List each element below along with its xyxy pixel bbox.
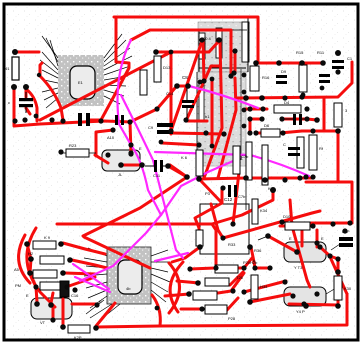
- junction pad (31,259): [28, 256, 34, 262]
- resistor R26: [205, 275, 244, 286]
- svg-text:C: C: [283, 142, 286, 147]
- junction pad (53,320): [50, 317, 55, 322]
- junction pad (156,52): [153, 49, 159, 55]
- junction pad (200,82): [198, 80, 203, 85]
- svg-text:E: E: [321, 236, 324, 241]
- resistor R17: [28, 251, 64, 264]
- transistor VT10 outline: [102, 150, 140, 171]
- junction pad (61,244): [58, 241, 64, 247]
- svg-text:T26: T26: [236, 275, 244, 280]
- wire D10 row: [280, 225, 285, 228]
- junction pad (188,86): [185, 83, 191, 89]
- junction pad (15,121): [12, 118, 17, 123]
- svg-text:4b: 4b: [126, 286, 131, 291]
- junction pad (200,247): [197, 244, 203, 250]
- resistor R23: [61, 143, 96, 157]
- wire box to VT4: [251, 247, 255, 268]
- junction pad (297,252): [294, 249, 300, 255]
- junction pad (36,287): [33, 284, 38, 289]
- junction pad (235,51): [232, 48, 237, 53]
- junction pad (279,63): [276, 60, 282, 66]
- resistor R4: [274, 100, 301, 113]
- junction pad (268,236): [265, 233, 271, 239]
- junction pad (283,133): [280, 130, 285, 135]
- capacitor C10: [284, 114, 307, 125]
- resistor R30: [334, 276, 352, 300]
- svg-text:D9: D9: [281, 69, 287, 74]
- svg-text:P3: P3: [205, 191, 211, 196]
- junction pad (131,154): [128, 151, 133, 156]
- junction pad (307,119): [304, 116, 309, 121]
- resistor C7b: [233, 146, 249, 174]
- junction pad (96,328): [93, 325, 99, 331]
- junction pad (27,244): [24, 241, 30, 247]
- wire bottom bus: [96, 294, 347, 327]
- junction pad (219,40): [216, 37, 222, 43]
- svg-text:R16: R16: [262, 75, 270, 80]
- junction pad (61,152): [58, 149, 63, 154]
- junction pad (330,256): [327, 253, 332, 258]
- wire VT1 verticals: [62, 299, 65, 327]
- svg-text:R36: R36: [254, 248, 262, 253]
- junction pad (168,166): [165, 163, 171, 169]
- junction pad (255,268): [252, 265, 257, 270]
- svg-text:D13: D13: [163, 65, 171, 70]
- junction pad (244,268): [241, 265, 246, 270]
- wire magenta E: [75, 277, 110, 292]
- label E marks: [26, 135, 324, 325]
- junction pad (304,304): [301, 301, 306, 306]
- wire H178: [199, 178, 312, 179]
- junction pad (216,268): [213, 265, 218, 270]
- junction pad (302,63): [299, 60, 305, 66]
- wire V235: [234, 51, 237, 73]
- junction pad (322,88): [320, 86, 325, 91]
- junction pad (256,133): [253, 130, 258, 135]
- junction pad (37,304): [34, 301, 40, 307]
- junction pad (338,131): [335, 128, 341, 134]
- junction pad (130,122): [127, 119, 132, 124]
- wire H63: [256, 62, 324, 65]
- junction pad (250,133): [247, 130, 252, 135]
- resistor R14: [246, 181, 268, 224]
- junction pad (204,81): [201, 78, 206, 83]
- svg-text:C7b: C7b: [238, 194, 246, 199]
- junction pad (307,109): [304, 106, 309, 111]
- junction pad (250,119): [247, 116, 252, 121]
- junction pad (338,306): [335, 303, 341, 309]
- svg-text:A10: A10: [107, 135, 115, 140]
- wire right loop: [302, 131, 338, 182]
- junction pad (52,120): [49, 117, 54, 122]
- wire magenta strand 2: [121, 95, 183, 258]
- wire to R6: [170, 165, 187, 177]
- capacitor C9: [148, 123, 173, 134]
- pin fan lines IC U3 right: [151, 250, 170, 302]
- wire left column join: [27, 244, 37, 302]
- wire magenta B: [189, 86, 258, 108]
- wire R30 bottom: [337, 301, 340, 306]
- junction pad (198,283): [195, 280, 201, 286]
- svg-text:b1: b1: [205, 114, 210, 119]
- pin fan lines IC U1 right: [104, 34, 132, 104]
- svg-text:C12: C12: [224, 197, 233, 202]
- junction pad (246,178): [243, 175, 249, 181]
- junction pad (282,222): [279, 219, 284, 224]
- pin fan lines IC U3 bottom: [86, 300, 120, 320]
- wire magenta F: [73, 264, 109, 289]
- junction pad (313,177): [310, 174, 315, 179]
- junction pad (270,268): [267, 265, 272, 270]
- junction pad (131,153): [128, 150, 133, 155]
- resistor R28: [205, 305, 236, 321]
- junction pad (338,53): [335, 50, 341, 56]
- junction pad (303,95): [301, 93, 306, 98]
- wire D2 diagonal: [84, 237, 150, 268]
- resistor R27: [68, 325, 90, 340]
- svg-text:R33: R33: [228, 242, 236, 247]
- resistor R16: [250, 66, 270, 91]
- junction pad (317,120): [314, 117, 320, 123]
- junction pad (282,119): [279, 116, 284, 121]
- svg-text:E: E: [99, 299, 102, 304]
- junction pad (244,75): [242, 73, 247, 78]
- wire magenta branch upper-right: [161, 158, 240, 215]
- junction pad (36,116): [34, 114, 39, 119]
- junction pad (187,177): [184, 174, 190, 180]
- wire H133: [171, 133, 224, 134]
- svg-text:D6: D6: [264, 123, 270, 128]
- wire VT10 out: [121, 164, 142, 167]
- junction pad (293,296): [290, 293, 295, 298]
- capacitor C2: [78, 113, 90, 126]
- svg-text:K34: K34: [260, 208, 268, 213]
- wire H109: [245, 108, 267, 111]
- svg-text:H2: H2: [28, 251, 34, 256]
- svg-text:D4: D4: [284, 100, 290, 105]
- svg-text:D10: D10: [283, 214, 291, 219]
- junction pad (63,273): [60, 270, 66, 276]
- svg-text:E1: E1: [78, 80, 84, 85]
- wire magenta main: [80, 40, 161, 281]
- capacitor C4: [332, 56, 353, 69]
- wire V204: [203, 40, 204, 81]
- junction pad (14,87): [11, 84, 17, 90]
- junction pad (338,72): [335, 69, 340, 74]
- junction pad (186,120): [183, 117, 188, 122]
- transistor VT1 outline: [31, 298, 72, 319]
- junction pad (157,109): [154, 106, 159, 111]
- junction pad (300,178): [297, 175, 302, 180]
- junction pad (231,76): [228, 73, 233, 78]
- junction pad (15,52): [12, 49, 18, 55]
- junction pad (338,259): [335, 256, 340, 261]
- svg-text:R23: R23: [69, 143, 77, 148]
- wire R2 tail: [172, 228, 200, 262]
- junction pad (202,40): [199, 37, 204, 42]
- wire VT3 connects: [268, 236, 297, 252]
- wire H306: [289, 304, 338, 305]
- resistor R6: [181, 150, 203, 176]
- junction pad (199,145): [196, 142, 201, 147]
- svg-text:C8: C8: [182, 75, 188, 80]
- wire top-left vertical: [101, 18, 129, 120]
- junction pad (263,109): [260, 106, 265, 111]
- wire C2 row: [26, 89, 37, 121]
- resistor R20: [215, 260, 251, 273]
- svg-text:R11: R11: [317, 50, 325, 55]
- resistor R25: [193, 291, 217, 300]
- junction pad (313,131): [310, 128, 315, 133]
- svg-text:E: E: [289, 236, 292, 241]
- capacitor C5: [283, 142, 300, 156]
- capacitor C1: [8, 92, 33, 113]
- junction pad (113,130): [110, 127, 115, 132]
- capacitor C13: [228, 185, 246, 199]
- svg-text:c: c: [8, 100, 10, 105]
- wire left rows to IC U3: [63, 243, 105, 254]
- svg-text:C16: C16: [71, 293, 79, 298]
- resistor R21: [14, 267, 57, 278]
- junction pad (63,121): [60, 118, 65, 123]
- junction pad (75,290): [72, 287, 77, 292]
- wire V290: [290, 200, 310, 287]
- junction pad (233,224): [230, 221, 235, 226]
- wire arcs at IC U3 right: [170, 262, 183, 312]
- resistor R1: [5, 57, 19, 80]
- junction pad (262,98): [259, 95, 265, 101]
- wire big diagonal: [40, 52, 171, 120]
- resistor R15: [296, 50, 307, 92]
- IC U5 block (light gray): [198, 18, 249, 72]
- junction pad (273,190): [270, 187, 276, 193]
- junction pad (121,165): [118, 162, 124, 168]
- junction pad (350,223): [347, 220, 352, 225]
- junction pad (306,177): [303, 174, 308, 179]
- svg-text:PM: PM: [15, 283, 21, 288]
- junction pad (39,75): [37, 73, 41, 77]
- wire rows right of IC U3: [190, 268, 215, 269]
- pin fan lines IC U3 left: [84, 248, 107, 308]
- resistor R8: [240, 142, 252, 180]
- junction pad (250,247): [247, 244, 253, 250]
- junction pad (306,306): [303, 303, 309, 309]
- junction pad (199,179): [196, 176, 202, 182]
- wire to C13: [201, 181, 222, 203]
- svg-text:C11: C11: [153, 173, 161, 178]
- wire H98: [236, 62, 352, 98]
- junction pad (161,142): [159, 140, 164, 145]
- junction pad (26,87): [23, 84, 29, 90]
- transistor VT4 outline: [284, 287, 326, 306]
- junction pad (246,98): [243, 95, 249, 101]
- junction pad (313,226): [310, 223, 315, 228]
- IC U3 body (gray): [107, 247, 151, 304]
- svg-text:H2b: H2b: [250, 260, 258, 265]
- junction pad (70,260): [67, 257, 73, 263]
- IC U1 body (gray): [58, 55, 104, 106]
- junction pad (206,133): [203, 130, 208, 135]
- resistor D13: [154, 56, 171, 82]
- junction pad (97,305): [94, 302, 99, 307]
- junction pad (256,63): [253, 60, 259, 66]
- wire C11 junction: [168, 166, 187, 177]
- resistor D10: [283, 214, 310, 230]
- capacitor C6: [276, 69, 287, 84]
- svg-text:C1: C1: [347, 56, 353, 61]
- svg-text:C9: C9: [148, 125, 154, 130]
- junction pad (244,126): [242, 124, 247, 129]
- junction pad (142,165): [139, 162, 145, 168]
- junction pad (250,302): [247, 299, 253, 305]
- wire vertical V171: [170, 52, 173, 134]
- capacitor C16: [60, 281, 79, 298]
- wire R14 drop: [212, 190, 273, 268]
- wire box red: [233, 172, 239, 224]
- junction pad (171,131): [168, 128, 173, 133]
- svg-text:A5: A5: [14, 267, 20, 272]
- wire H3: [156, 41, 222, 178]
- resistor R9: [262, 145, 275, 191]
- wire V338 cap leg: [337, 259, 340, 273]
- wire D1 diagonal: [83, 177, 187, 236]
- wire pads row mid-right: [250, 118, 262, 121]
- wire left zigzag: [14, 87, 130, 126]
- junction pad (250,109): [247, 106, 252, 111]
- pin fan lines IC U1 left: [40, 36, 58, 108]
- junction pad (333,224): [330, 221, 335, 226]
- junction pad (345,231): [342, 228, 347, 233]
- junction pad (67,287): [64, 284, 69, 289]
- junction pad (323,63): [320, 60, 326, 66]
- svg-text:Y4 P: Y4 P: [296, 309, 305, 314]
- component box C12: [200, 197, 249, 254]
- junction pad (223,188): [220, 185, 225, 190]
- capacitor C3: [115, 115, 124, 125]
- svg-text:41: 41: [5, 66, 10, 71]
- resistor R10: [297, 137, 304, 168]
- pin stub lines right of VT boxes: [258, 236, 340, 294]
- wire R6 bottom: [198, 178, 201, 179]
- junction pad (265,180): [262, 177, 268, 183]
- junction pad (338,272): [335, 269, 341, 275]
- resistor R5: [309, 135, 324, 170]
- wire C1 stub: [25, 89, 28, 97]
- junction pad (224,134): [221, 131, 226, 136]
- svg-text:C7b: C7b: [241, 154, 249, 159]
- svg-text:P28: P28: [228, 316, 236, 321]
- junction pad (51,305): [48, 302, 54, 308]
- junction pad (157,308): [155, 306, 160, 311]
- wire H2: [131, 30, 231, 76]
- resistor D6: [261, 123, 280, 137]
- wire magenta C horizontal: [155, 152, 309, 176]
- junction pad (223,238): [220, 235, 225, 240]
- magenta traces: [73, 40, 309, 292]
- junction pad (233,291): [230, 288, 235, 293]
- capacitor C11: [145, 160, 168, 178]
- svg-text:R15: R15: [296, 50, 304, 55]
- junction pad (244,92): [242, 90, 247, 95]
- resistor R34: [251, 275, 268, 299]
- junction pad (101,121): [98, 118, 103, 123]
- wire left arc 1: [27, 228, 55, 307]
- svg-text:K30: K30: [344, 286, 352, 291]
- junction pad (285,98): [282, 95, 287, 100]
- svg-text:H34: H34: [260, 284, 268, 289]
- junction pad (189,294): [186, 291, 192, 297]
- wire magenta short: [155, 253, 188, 261]
- svg-text:VT: VT: [40, 320, 46, 325]
- resistor R22: [15, 282, 60, 290]
- junction pad (177,86): [174, 83, 180, 89]
- svg-text:K 9: K 9: [44, 235, 51, 240]
- resistor R3: [334, 103, 348, 127]
- wire hook: [40, 63, 42, 76]
- junction pad (320,247): [317, 244, 322, 249]
- junction pad (212,79): [210, 77, 215, 82]
- junction pad (131,145): [128, 142, 133, 147]
- junction pad (171,52): [169, 50, 174, 55]
- wire V131: [130, 122, 131, 153]
- capacitor C14: [166, 88, 194, 118]
- junction pad (190,269): [187, 266, 192, 271]
- resistor R19: [33, 235, 56, 249]
- junction pad (285,180): [282, 177, 287, 182]
- junction pad (244,292): [241, 289, 246, 294]
- wire H223: [302, 222, 352, 225]
- wire pad lead top-left: [15, 51, 39, 54]
- junction pad (317,243): [314, 240, 319, 245]
- svg-text:E: E: [139, 146, 142, 151]
- IC U2 strip (light gray): [197, 68, 246, 166]
- svg-text:K 6: K 6: [181, 155, 188, 160]
- wire left arc 2: [19, 235, 30, 283]
- resistor D12: [140, 70, 147, 95]
- junction pad (285,282): [282, 279, 287, 284]
- wire top bus H1: [114, 17, 258, 63]
- wire V324: [323, 98, 326, 131]
- junction pad (212,146): [210, 144, 215, 149]
- junction pad (63,327): [60, 324, 66, 330]
- wire VT4 connects: [250, 294, 290, 302]
- wire long diag from box: [223, 211, 320, 238]
- junction pad (108,155): [105, 152, 110, 157]
- junction pad (234,73): [231, 70, 236, 75]
- resistor R7: [196, 230, 203, 246]
- wire H224 long: [57, 223, 212, 226]
- capacitor C7: [317, 50, 330, 83]
- wire R23 elbow: [96, 130, 113, 156]
- junction pad (317,294): [314, 291, 319, 296]
- transistor VT3 outline: [284, 242, 326, 262]
- junction pad (262,119): [259, 116, 264, 121]
- wire C8 diag: [130, 88, 175, 122]
- junction pad (244,110): [242, 108, 247, 113]
- junction pad (202,309): [199, 306, 204, 311]
- svg-text:E: E: [26, 293, 29, 298]
- svg-text:Y T3: Y T3: [294, 265, 303, 270]
- capacitor C17: [339, 229, 353, 247]
- junction pad (30,273): [27, 270, 33, 276]
- junction pad (25,120): [22, 117, 27, 122]
- svg-text:C14: C14: [166, 91, 174, 96]
- junction pad (302,97): [299, 94, 304, 99]
